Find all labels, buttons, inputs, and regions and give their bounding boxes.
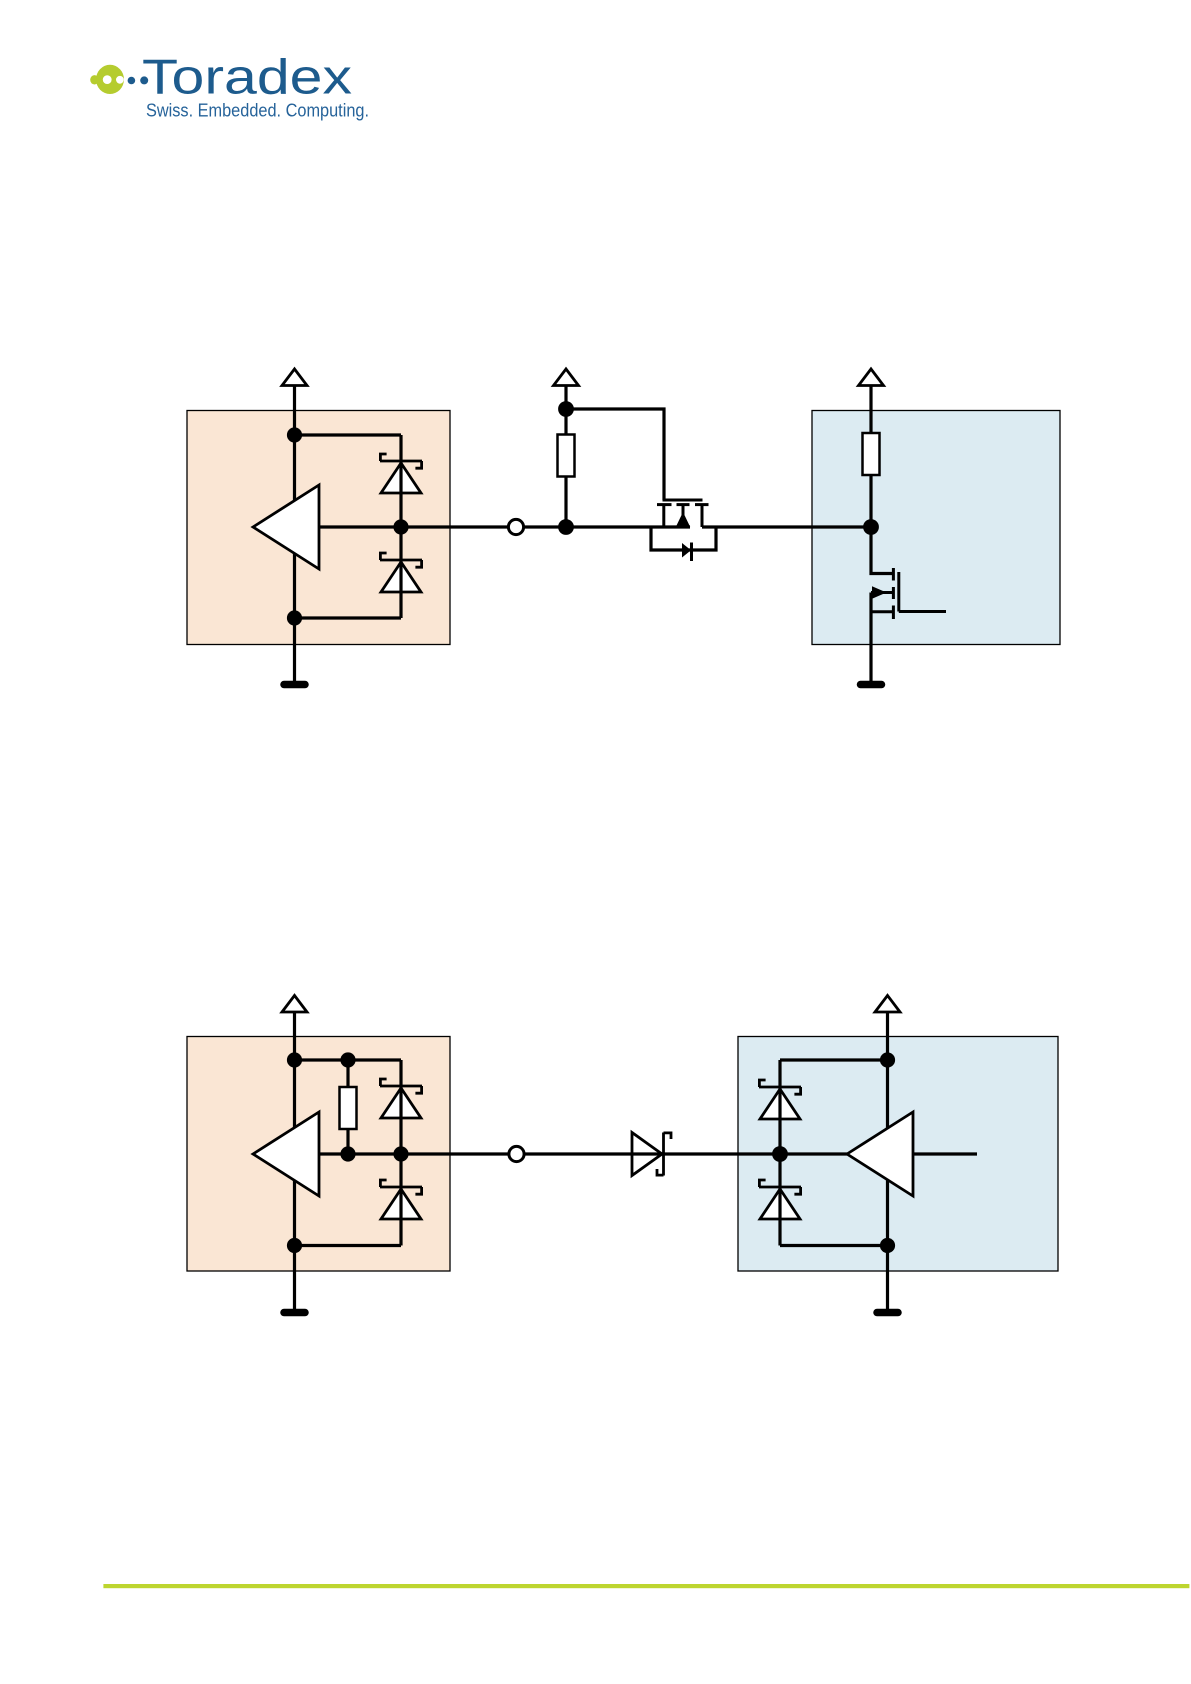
pin terminal circle 2 [509, 1146, 524, 1161]
svg-text:Toradex: Toradex [142, 51, 352, 105]
wire output U2 [319, 1152, 510, 1155]
pin terminal circle 1 [508, 519, 523, 534]
wire top left 2 [295, 1058, 402, 1061]
power symbol VCC4 [282, 996, 307, 1061]
logo eye left [103, 75, 112, 84]
diode D1 body [381, 463, 421, 493]
node dot VCC1 [287, 427, 302, 442]
power symbol VCC5 [875, 996, 900, 1061]
resistor R2 [863, 433, 880, 475]
wire pull-up branch right [869, 433, 872, 527]
wire bottom right 2 [780, 1244, 888, 1247]
wire node A [524, 525, 690, 528]
power symbol VCC3 [859, 369, 884, 433]
diode D3 body [381, 1088, 421, 1118]
node dot VCC4 [287, 1052, 302, 1067]
footer rule [103, 1584, 1189, 1588]
diode D4 cathode [380, 1180, 422, 1194]
buffer U3 [847, 1112, 913, 1196]
ground symbol left [284, 681, 305, 689]
driver box (orange) [187, 411, 450, 645]
wire rail left 2 [293, 1060, 296, 1246]
transistor Q2 open drain [871, 568, 946, 619]
peripheral box (blue) [812, 411, 1060, 645]
wire rail left [293, 435, 296, 618]
transistor Q1 pass FET [657, 500, 709, 527]
svg-text:Swiss. Embedded. Computing.: Swiss. Embedded. Computing. [146, 100, 369, 121]
wire source to ground [869, 593, 872, 683]
node dot clamp2 [393, 1146, 408, 1161]
diode D5 body [632, 1133, 662, 1176]
driver box 2 (orange) [187, 1037, 450, 1272]
ground stem left [293, 618, 296, 682]
diode D2 cathode [380, 553, 422, 567]
wire drain drop [871, 527, 892, 574]
transistor Q1 body diode [682, 543, 691, 558]
node dot GND3 [880, 1238, 895, 1253]
node dot R bottom [340, 1146, 355, 1161]
power symbol VCC2 [554, 369, 579, 409]
wire clamp branch 2 [399, 1060, 402, 1246]
wire pull-up branch [564, 409, 567, 527]
wire output U1 [319, 525, 509, 528]
peripheral box 2 (blue) [738, 1037, 1058, 1272]
power symbol VCC1 [282, 369, 307, 435]
transistor Q2 bulk arrow [872, 586, 887, 598]
node dot clamp1 [393, 519, 408, 534]
resistor R1 [558, 435, 575, 477]
ground symbol right [861, 681, 882, 689]
ground symbol right 2 [877, 1309, 898, 1317]
diode D5 cathode [657, 1133, 671, 1176]
wire input U3 [913, 1152, 977, 1155]
buffer U2 [253, 1112, 319, 1196]
diode D7 cathode [759, 1180, 801, 1194]
wire top left [295, 433, 402, 436]
ground stem right 2 [886, 1246, 889, 1311]
diode D1 cathode [380, 454, 422, 468]
wire clamp branch [399, 435, 402, 618]
node dot VCC2 [558, 401, 574, 417]
wire rail right 2 [886, 1060, 889, 1246]
logo eye right [116, 76, 124, 84]
diode D3 cathode [380, 1079, 422, 1093]
node dot GND2 [287, 1238, 302, 1253]
wire node B [702, 525, 871, 528]
wire clamp branch 3 [778, 1060, 781, 1246]
diode D6 cathode [759, 1080, 801, 1094]
wire gate feed [566, 409, 664, 500]
diode D6 body [760, 1089, 800, 1119]
wire node C [524, 1152, 847, 1155]
node dot A [558, 519, 574, 535]
buffer U1 [253, 485, 319, 569]
diode D4 body [381, 1189, 421, 1219]
ground stem left 2 [293, 1246, 296, 1311]
transistor Q1 body diode loop [651, 527, 716, 550]
node dot VCC5 [880, 1052, 895, 1067]
resistor R3 [340, 1087, 357, 1129]
diode D2 body [381, 562, 421, 592]
transistor Q1 bulk arrow [676, 512, 690, 527]
wire bottom left 2 [295, 1244, 402, 1247]
logo dot 2 [140, 76, 148, 84]
wire top right 2 [780, 1058, 888, 1061]
logo dot 1 [128, 77, 136, 85]
logo green head [90, 65, 124, 94]
wire bottom left [295, 616, 402, 619]
ground symbol left 2 [284, 1309, 305, 1317]
node dot B [863, 519, 879, 535]
node dot R top [340, 1052, 355, 1067]
wire feedback R branch [346, 1060, 349, 1154]
diode D7 body [760, 1189, 800, 1219]
node dot C [772, 1146, 788, 1162]
node dot GND1 [287, 610, 302, 625]
